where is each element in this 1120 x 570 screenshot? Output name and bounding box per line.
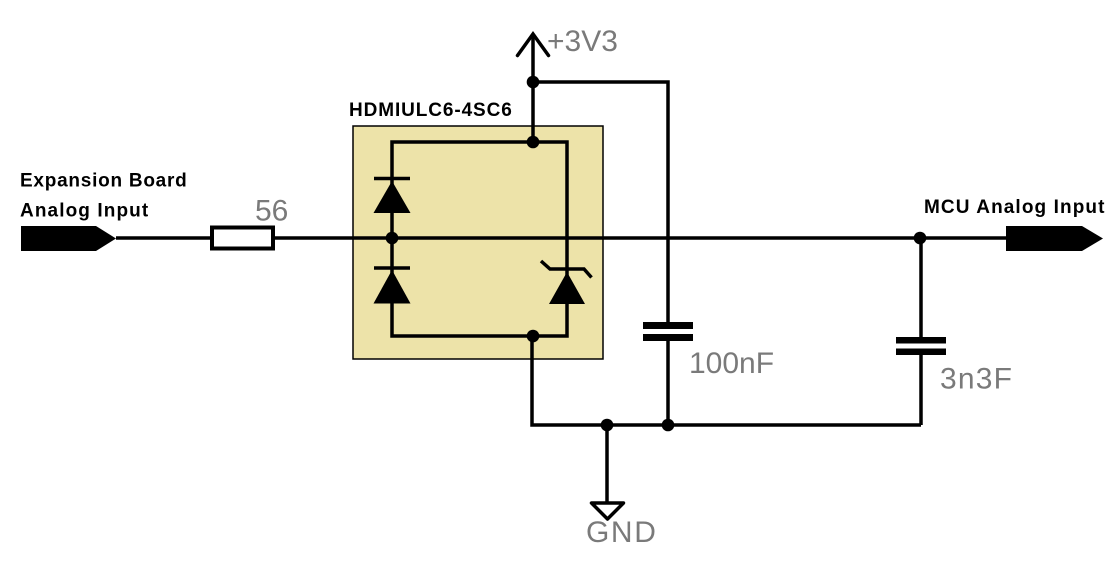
port MCU Analog Input (1006, 226, 1103, 251)
wire IC inner loop (392, 142, 567, 336)
resistor R1 (212, 228, 273, 249)
wire main signal line (116, 236, 1006, 240)
svg-text:3n3F: 3n3F (940, 363, 1013, 396)
wire +3V3 stem (531, 34, 535, 142)
junction at C2 top (914, 232, 927, 245)
junction at GND branch (601, 419, 614, 432)
wire GND stem (605, 425, 609, 502)
diode D2 (374, 268, 411, 304)
wire C2 top lead (919, 238, 923, 338)
wire C2 bottom lead (919, 355, 923, 425)
power +3V3 arrow (518, 34, 549, 56)
ground (592, 503, 624, 519)
junction at C1 bottom (662, 419, 675, 432)
junction at +3V3 branch (527, 76, 540, 89)
svg-text:MCU Analog Input: MCU Analog Input (924, 197, 1106, 218)
IC U1 body (353, 126, 603, 359)
svg-text:Analog Input: Analog Input (20, 201, 149, 222)
svg-text:100nF: 100nF (689, 347, 774, 380)
svg-text:GND: GND (586, 516, 657, 549)
wire top branch to C1 (533, 82, 668, 322)
zener diode D3 (541, 261, 592, 304)
junction at IC top pin (527, 136, 540, 149)
svg-text:Expansion Board: Expansion Board (20, 171, 188, 192)
junction on left diode string (386, 232, 399, 245)
svg-text:HDMIULC6-4SC6: HDMIULC6-4SC6 (349, 100, 513, 121)
port Expansion Board Analog Input (21, 226, 116, 251)
capacitor C2 (896, 337, 946, 355)
junction at IC bottom pin (527, 330, 540, 343)
wire C1 bottom lead (666, 341, 670, 425)
wire bottom rail (532, 336, 921, 425)
capacitor C1 (643, 322, 693, 341)
svg-text:56: 56 (255, 195, 288, 228)
diode D1 (374, 179, 411, 214)
svg-text:+3V3: +3V3 (547, 25, 618, 58)
